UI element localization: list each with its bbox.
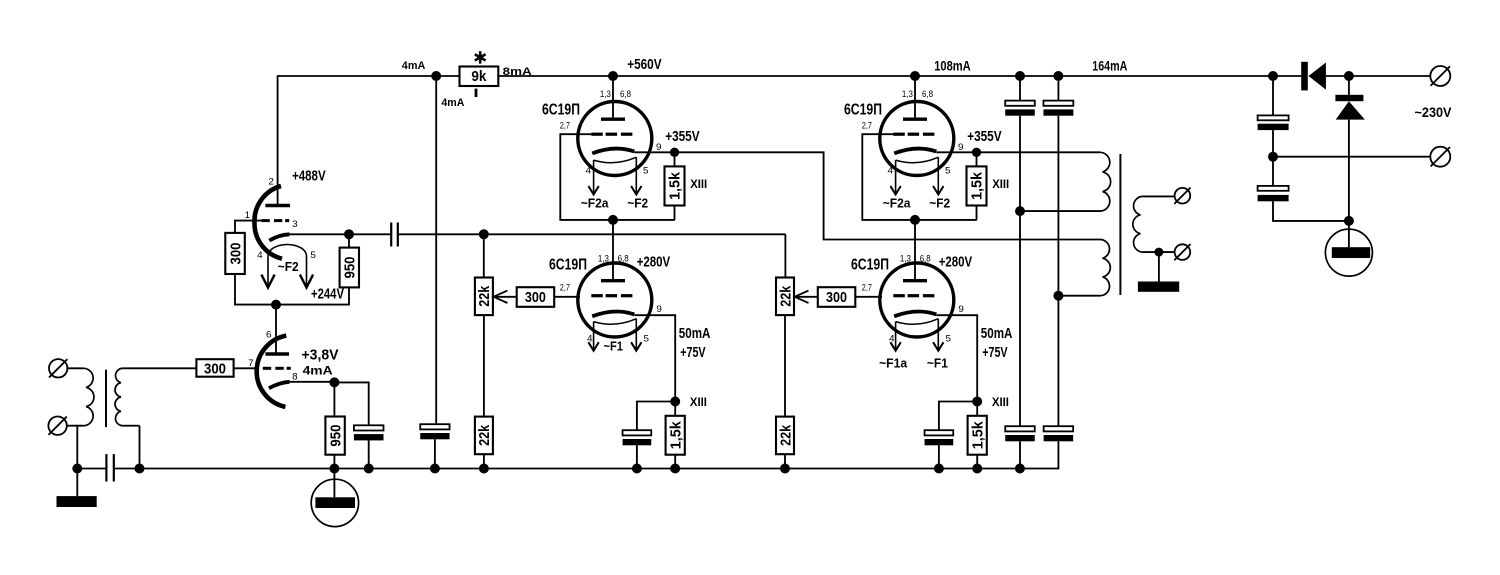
wire secondary bottom <box>1143 251 1175 253</box>
wire cathode V1b to node <box>290 381 335 383</box>
wire input cold <box>67 425 84 427</box>
heater arrow pin 4 <box>261 275 274 288</box>
wire D2 to lower node <box>1348 120 1350 221</box>
resistor 9k <box>460 67 499 87</box>
node doubler output <box>1344 71 1354 81</box>
wire left plate feed (to V1a anode) <box>277 75 279 204</box>
node XIII left <box>670 397 680 407</box>
svg-text:XIII: XIII <box>690 395 707 409</box>
node speaker ground <box>1154 248 1163 257</box>
node input cathode ground <box>329 464 339 474</box>
wire to mains connector L <box>1349 75 1431 77</box>
potentiometer 22k upper (right) <box>776 278 794 316</box>
wire OT lower primary return <box>1058 295 1100 297</box>
transformer OT upper primary <box>1100 152 1111 211</box>
node signal to left pot <box>479 229 489 239</box>
node R1,5k ground right <box>972 464 982 474</box>
svg-text:6,8: 6,8 <box>618 254 629 264</box>
wire node to R950b <box>333 382 335 416</box>
potentiometer 22k lower (left) <box>475 417 493 455</box>
svg-text:9: 9 <box>656 304 662 314</box>
node SRPP right <box>910 215 920 225</box>
wire secondary bottom to bus <box>124 425 140 427</box>
svg-text:108mA: 108mA <box>934 58 971 74</box>
wiper arrow left <box>493 296 517 298</box>
node XIII right <box>972 397 982 407</box>
wire right +355V to OT upper primary <box>977 151 1101 153</box>
resistor 950 (V1a cathode) <box>340 248 359 288</box>
connector mains N <box>1430 147 1450 167</box>
svg-text:~F2: ~F2 <box>929 196 950 211</box>
svg-text:4: 4 <box>888 165 894 175</box>
svg-text:4: 4 <box>889 334 895 344</box>
connector input top <box>49 359 67 377</box>
svg-text:XIII: XIII <box>992 177 1009 191</box>
svg-text:9: 9 <box>958 304 964 314</box>
wire anode feed right upper <box>914 76 916 119</box>
svg-text:9: 9 <box>656 142 662 152</box>
wire R300 to V1b grid <box>234 367 259 369</box>
wiper arrow right <box>794 296 818 298</box>
svg-text:1,5k: 1,5k <box>668 420 684 449</box>
svg-text:XIII: XIII <box>690 177 707 191</box>
ground (speaker) <box>1158 252 1160 281</box>
wire node to R1,5k right <box>976 152 978 166</box>
connector speaker + <box>1175 188 1191 204</box>
node anode right upper <box>910 71 920 81</box>
ground mains (protective earth) <box>1348 221 1350 247</box>
svg-text:7: 7 <box>248 358 254 368</box>
svg-text:~F1a: ~F1a <box>879 356 908 371</box>
wire cathode V1a to node <box>290 233 350 235</box>
wire cap line A bottom <box>1019 441 1021 468</box>
capacitor coupling (V1a out) <box>349 233 391 235</box>
wire XIII to bypass cap right <box>939 402 977 431</box>
svg-text:+488V: +488V <box>292 168 326 185</box>
svg-text:6: 6 <box>266 330 272 340</box>
node input ground <box>72 464 82 474</box>
node OT upper primary return <box>1015 206 1025 216</box>
wire R950 bottom to rail <box>348 287 350 304</box>
svg-text:4mA: 4mA <box>303 364 333 378</box>
capacitor filter A upper <box>1005 101 1035 106</box>
capacitor ground isolation <box>77 468 106 470</box>
transformer OT core <box>1119 154 1121 295</box>
svg-text:9k: 9k <box>471 68 487 85</box>
svg-text:50mA: 50mA <box>679 326 711 342</box>
svg-text:+280V: +280V <box>637 253 671 270</box>
svg-text:+3,8V: +3,8V <box>302 347 339 364</box>
capacitor cathode bypass (right) <box>925 430 954 435</box>
svg-text:6С19П: 6С19П <box>844 102 882 119</box>
svg-text:1,3: 1,3 <box>600 89 611 99</box>
svg-text:22k: 22k <box>476 285 493 307</box>
wire B+ rail +560V <box>278 75 460 77</box>
svg-text:4: 4 <box>587 334 593 344</box>
resistor 300 (right grid) <box>818 287 856 307</box>
svg-text:22k: 22k <box>777 285 794 307</box>
triode V1a envelope (half-tube) <box>254 186 282 259</box>
wire cathode left lower <box>634 315 675 401</box>
wire input ground drop <box>76 426 78 469</box>
node anode left upper <box>608 71 618 81</box>
svg-text:2: 2 <box>268 177 274 187</box>
potentiometer 22k upper (left) <box>475 278 493 316</box>
triode V1a grid <box>262 219 270 222</box>
svg-text:5: 5 <box>946 334 952 344</box>
wire signal drop to left pot <box>483 234 485 277</box>
wire ground bus <box>114 468 1020 470</box>
triode V1a cathode <box>269 234 289 240</box>
svg-text:1,5k: 1,5k <box>970 420 986 449</box>
triode V1b grid <box>263 367 271 370</box>
wire XIII node to R1,5k left <box>674 402 676 416</box>
wire pot to bus left <box>483 454 485 468</box>
diode D1 <box>1301 62 1308 91</box>
svg-text:6С19П: 6С19П <box>542 102 580 119</box>
wire filter cap to bus <box>434 439 436 468</box>
node rail to V1b anode <box>271 300 281 310</box>
potentiometer 22k lower (right) <box>776 417 794 455</box>
svg-text:2,7: 2,7 <box>560 120 570 130</box>
svg-text:1: 1 <box>245 210 251 220</box>
svg-text:8mA: 8mA <box>503 66 532 78</box>
wire node to R1,5k left <box>674 152 676 166</box>
svg-text:+280V: +280V <box>939 253 973 270</box>
wire cap line A mid <box>1019 116 1021 427</box>
wire R1,5k to frame right <box>976 206 978 220</box>
capacitor filter B lower <box>1044 426 1074 431</box>
svg-text:6,8: 6,8 <box>922 89 933 99</box>
capacitor PSU C1 <box>1272 76 1274 115</box>
connector mains L <box>1430 66 1450 86</box>
node +355V right <box>972 148 981 157</box>
svg-text:4: 4 <box>257 250 263 260</box>
wire R300 to grid right lower <box>855 296 882 298</box>
svg-text:22k: 22k <box>777 424 794 446</box>
svg-text:6С19П: 6С19П <box>851 257 889 274</box>
svg-text:~F1: ~F1 <box>927 356 948 371</box>
svg-text:300: 300 <box>525 289 546 306</box>
wire secondary top to R300 <box>124 367 197 369</box>
transformer T1 secondary <box>115 368 123 425</box>
transformer OT lower primary <box>1100 240 1110 296</box>
node R1,5k ground left <box>670 464 680 474</box>
wire R1,5k lower to bus right <box>976 455 978 469</box>
node bypass ground right <box>934 464 944 474</box>
node filter cap ground <box>430 464 440 474</box>
wire +244V rail <box>234 304 350 306</box>
node secondary ground <box>135 464 145 474</box>
wire pot to bus right <box>784 454 786 468</box>
svg-text:5: 5 <box>945 165 951 175</box>
svg-text:~230V: ~230V <box>1415 104 1453 120</box>
wire bypass cap to bus <box>368 440 370 468</box>
wire bypass to bus left <box>636 445 638 468</box>
label * (asterisk) <box>479 51 482 63</box>
wire anode feed left lower <box>612 220 614 281</box>
wire R300 to grid left lower <box>554 296 580 298</box>
heater arrow pin 5 <box>300 275 313 288</box>
svg-text:6,8: 6,8 <box>920 254 931 264</box>
node V1b cathode <box>329 377 339 387</box>
svg-text:50mA: 50mA <box>981 326 1013 342</box>
svg-text:1,3: 1,3 <box>902 89 913 99</box>
tube 6C19P left lower <box>578 263 652 337</box>
connector speaker - <box>1175 244 1191 260</box>
wire C2 to lower node <box>1273 201 1349 221</box>
wire left +355V to OT lower primary <box>675 152 1101 239</box>
svg-text:9: 9 <box>958 142 964 152</box>
connector input bottom <box>48 417 66 435</box>
svg-text:+355V: +355V <box>665 128 699 145</box>
wire OT upper primary return <box>1020 210 1100 212</box>
wire V1b anode feed <box>275 305 277 353</box>
label I (current mark) <box>475 89 478 97</box>
resistor 1,5k (left upper) <box>665 166 685 205</box>
wire grid V1a to R300 <box>235 221 262 233</box>
wire cathode right lower <box>936 315 977 401</box>
svg-text:~F2a: ~F2a <box>581 196 610 211</box>
capacitor PSU C2 <box>1272 157 1274 186</box>
wire C1 to mid node <box>1272 130 1274 157</box>
svg-text:~F2: ~F2 <box>627 196 648 211</box>
svg-text:2,7: 2,7 <box>862 120 872 130</box>
triode V1a anode <box>265 204 290 207</box>
svg-text:~F2: ~F2 <box>278 259 299 274</box>
ground mains (input stage) <box>333 469 335 498</box>
svg-text:22k: 22k <box>476 424 493 446</box>
resistor 300 (V1a grid) <box>225 233 245 274</box>
triode V1a heater <box>268 245 307 288</box>
wire cap line B bottom <box>1020 441 1059 468</box>
node PSU B+ tap <box>1268 71 1278 81</box>
node pot ground right <box>780 464 790 474</box>
wire anode feed right lower <box>914 220 916 281</box>
wire grid frame left <box>560 134 674 220</box>
svg-text:5: 5 <box>643 165 649 175</box>
svg-text:300: 300 <box>227 243 244 265</box>
node V1a cathode <box>344 229 354 239</box>
svg-text:1,5k: 1,5k <box>668 171 684 200</box>
svg-text:950: 950 <box>342 257 359 279</box>
wire mid node to mains N <box>1273 156 1430 158</box>
node cap line A ground <box>1015 464 1025 474</box>
triode V1b cathode <box>269 382 290 388</box>
svg-text:+355V: +355V <box>967 128 1001 145</box>
resistor 300 (input) <box>196 359 233 377</box>
node bypass ground left <box>632 464 642 474</box>
wire secondary top to connector <box>1143 195 1175 197</box>
svg-text:+244V: +244V <box>311 285 344 302</box>
svg-text:+75V: +75V <box>982 345 1008 361</box>
svg-text:~F2a: ~F2a <box>883 196 912 211</box>
svg-text:6С19П: 6С19П <box>549 257 587 274</box>
svg-text:164mA: 164mA <box>1092 58 1127 74</box>
capacitor filter B upper <box>1043 101 1073 106</box>
node input bypass ground <box>364 464 374 474</box>
svg-text:300: 300 <box>826 289 847 306</box>
tube 6C19P right upper <box>880 102 954 176</box>
capacitor V1b cathode bypass <box>354 425 384 430</box>
transformer OT secondary <box>1133 196 1143 252</box>
transformer T1 core <box>105 370 107 427</box>
svg-text:3: 3 <box>292 219 298 229</box>
resistor 300 (left grid) <box>517 287 555 307</box>
resistor 950 (V1b cathode) <box>325 417 344 455</box>
wire R950b to bus <box>333 455 335 469</box>
svg-text:1,3: 1,3 <box>598 254 609 264</box>
node cap line A top <box>1015 71 1025 81</box>
node doubler mid <box>1268 152 1278 162</box>
node SRPP left <box>608 215 618 225</box>
wire XIII node to R1,5k right <box>976 402 978 416</box>
tube 6C19P right lower <box>880 263 954 337</box>
triode V1b envelope (half-tube) <box>257 336 287 407</box>
resistor 1,5k (right lower) <box>968 416 987 455</box>
svg-text:5: 5 <box>644 334 650 344</box>
node +355V left <box>670 148 679 157</box>
tube 6C19P left upper <box>578 102 652 176</box>
wire B+ to D1 <box>1273 75 1301 77</box>
svg-text:300: 300 <box>204 360 226 377</box>
wire R300 bottom to rail <box>234 274 236 305</box>
diode D2 <box>1348 76 1350 95</box>
node OT lower primary return <box>1053 291 1063 301</box>
wire pot middle right <box>784 315 786 417</box>
node pot ground left <box>479 464 489 474</box>
wire XIII to bypass cap left <box>637 402 675 431</box>
svg-text:4mA: 4mA <box>402 60 426 72</box>
svg-text:4mA: 4mA <box>441 97 464 109</box>
wire node to bypass cap <box>334 382 368 425</box>
svg-text:4: 4 <box>586 165 592 175</box>
wire grid frame right <box>862 134 976 220</box>
wire anode feed left upper <box>612 76 614 119</box>
wire input hot to primary <box>67 367 83 369</box>
wire cathode right upper <box>936 151 976 153</box>
wire pot middle left <box>483 315 485 417</box>
svg-text:2,7: 2,7 <box>862 283 872 293</box>
wire coupling cap to pots <box>398 233 786 235</box>
ground chassis (input) <box>76 469 78 497</box>
node 4mA junction <box>431 71 441 81</box>
svg-text:1,5k: 1,5k <box>970 171 986 200</box>
svg-text:~F1: ~F1 <box>604 339 624 354</box>
triode V1b anode <box>265 352 289 355</box>
svg-text:1,3: 1,3 <box>900 254 911 264</box>
wire bypass to bus right <box>938 445 940 468</box>
svg-text:+560V: +560V <box>627 56 661 73</box>
node cap line B top <box>1053 71 1063 81</box>
svg-text:2,7: 2,7 <box>560 283 570 293</box>
wire node to R950 top <box>348 234 350 247</box>
wire signal to right pot <box>784 234 786 277</box>
wire cathode left upper <box>634 151 674 153</box>
wire D1 to node <box>1326 75 1349 77</box>
wire cap line B upper <box>1057 76 1059 101</box>
wire R1,5k to frame left <box>674 206 676 220</box>
wire screen branch 4mA <box>435 76 437 424</box>
transformer T1 primary <box>84 368 94 425</box>
resistor 1,5k (right upper) <box>967 166 987 205</box>
svg-text:950: 950 <box>327 425 344 447</box>
wire cap line A upper <box>1019 76 1021 101</box>
svg-text:6,8: 6,8 <box>620 89 631 99</box>
wire cap line B mid <box>1057 116 1059 427</box>
svg-text:8: 8 <box>292 372 298 382</box>
resistor 1,5k (left lower) <box>666 416 685 455</box>
svg-text:5: 5 <box>310 250 316 260</box>
capacitor cathode bypass (left) <box>623 430 652 435</box>
capacitor filter (4mA branch) <box>420 424 449 429</box>
svg-text:+75V: +75V <box>680 345 706 361</box>
capacitor filter A lower <box>1005 426 1035 431</box>
node PSU return <box>1344 216 1354 226</box>
svg-text:XIII: XIII <box>992 395 1009 409</box>
wire R1,5k lower to bus left <box>674 455 676 469</box>
